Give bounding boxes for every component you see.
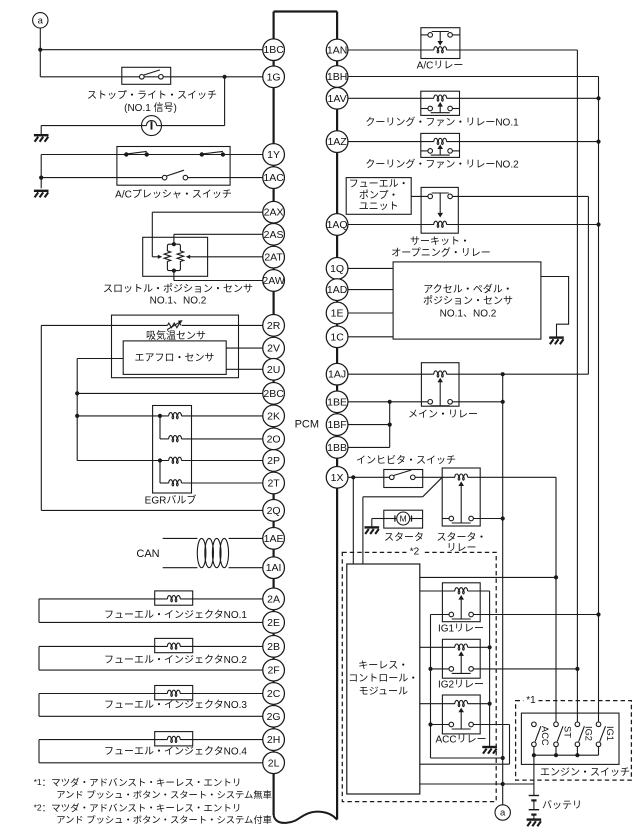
engine switch contact IG1 — [596, 722, 601, 727]
main relay K4 — [421, 363, 459, 407]
junction dot on 1G line — [223, 75, 227, 79]
svg-text:2U: 2U — [267, 364, 280, 376]
svg-text:*2：マツダ・アドバンスト・キーレス・エントリ: *2：マツダ・アドバンスト・キーレス・エントリ — [34, 802, 242, 814]
B+ junction dot on 1AJ — [501, 372, 505, 376]
svg-text:ポジション・センサ: ポジション・センサ — [423, 295, 513, 307]
junction dot EGR node 2 — [158, 458, 162, 462]
svg-text:2AS: 2AS — [264, 229, 284, 241]
PCM pin 2P — [263, 450, 285, 472]
wire 1BH — [348, 76, 599, 78]
ST feed vertical — [555, 477, 557, 722]
keyless branch from 1X — [352, 477, 354, 564]
svg-text:IG1: IG1 — [605, 726, 615, 741]
PCM pin 2AT — [263, 246, 285, 268]
PCM pin 1BH — [326, 66, 348, 88]
engine switch contact ACC — [532, 722, 537, 727]
pressure switch contact 3 (open) — [162, 175, 167, 180]
PCM pin 1Y — [263, 144, 285, 166]
svg-text:フューエル・インジェクタNO.4: フューエル・インジェクタNO.4 — [104, 745, 247, 757]
svg-text:M: M — [400, 513, 407, 523]
svg-text:IG2リレー: IG2リレー — [438, 680, 484, 691]
svg-text:*1：マツダ・アドバンスト・キーレス・エントリ: *1：マツダ・アドバンスト・キーレス・エントリ — [34, 777, 242, 789]
PCM pin 1BE — [326, 391, 348, 413]
EGR valve box — [153, 406, 192, 494]
PCM pin 2V — [263, 337, 285, 359]
svg-text:*2: *2 — [410, 546, 420, 557]
svg-text:オープニング・リレー: オープニング・リレー — [391, 246, 490, 259]
fuel injector NO.2 coil — [155, 638, 193, 652]
wire 2U — [226, 368, 263, 370]
svg-text:2Q: 2Q — [267, 505, 281, 517]
svg-text:CAN: CAN — [136, 548, 159, 560]
PCM pin 2Q — [263, 500, 285, 522]
svg-text:2G: 2G — [267, 711, 281, 723]
svg-text:フューエル・: フューエル・ — [349, 179, 409, 190]
pressure switch contact 2 (closed) — [200, 152, 204, 156]
B+ vertical — [502, 374, 504, 805]
svg-text:1BH: 1BH — [327, 71, 347, 83]
keyless control module box — [347, 564, 420, 794]
circuit opening relay K3 — [421, 187, 458, 233]
wire 2K with EGR coil L1 — [75, 414, 79, 418]
PCM pin 1AD — [326, 279, 348, 301]
wire airflow sensor common — [77, 358, 123, 360]
PCM pin 1E — [326, 302, 348, 324]
wire 2AT to wiper 2 — [190, 256, 263, 258]
wire 1AN to A/C relay coil — [348, 49, 434, 51]
PCM pin 1AJ — [326, 363, 348, 385]
label *2 — [407, 546, 423, 558]
svg-text:アンド プッシュ・ボタン・スタート・システム付車: アンド プッシュ・ボタン・スタート・システム付車 — [56, 814, 272, 825]
PCM pin 1AZ — [326, 131, 348, 153]
svg-text:2B: 2B — [267, 641, 280, 653]
fuel injector NO.1 return wire — [38, 599, 40, 623]
junction dot EGR node 1 — [158, 414, 162, 418]
svg-text:クーリング・ファン・リレーNO.2: クーリング・ファン・リレーNO.2 — [365, 157, 519, 170]
ground for starter — [365, 526, 380, 528]
svg-text:2T: 2T — [267, 477, 280, 489]
svg-text:A/Cプレッシャ・スイッチ: A/Cプレッシャ・スイッチ — [115, 188, 232, 200]
PCM pin 2C — [263, 683, 285, 705]
svg-text:2C: 2C — [267, 688, 281, 700]
svg-text:A/Cリレー: A/Cリレー — [417, 60, 464, 71]
PCM pin 1BF — [326, 414, 348, 436]
CAN twisted pair — [163, 537, 198, 539]
wire 2R left route down to 2Q — [40, 325, 42, 510]
PCM pin 2R — [263, 315, 285, 337]
fuel injector NO.1 coil — [155, 591, 193, 605]
fuel pump unit box — [346, 178, 411, 215]
svg-text:IG2: IG2 — [584, 726, 594, 741]
svg-text:1BC: 1BC — [263, 44, 284, 56]
PCM pin 2F — [263, 659, 285, 681]
PCM pin 2L — [263, 752, 285, 774]
node a (top page connector) — [33, 13, 48, 28]
wire 1X — [348, 476, 390, 478]
svg-text:2F: 2F — [267, 665, 279, 677]
svg-text:2P: 2P — [267, 455, 280, 467]
PCM pin 1AI — [263, 557, 285, 579]
svg-text:1Y: 1Y — [267, 149, 280, 161]
svg-text:PCM: PCM — [295, 418, 319, 430]
PCM pin 1BC — [263, 39, 285, 61]
fuel injector NO.4 return wire — [38, 740, 40, 763]
node a (bottom page connector) — [495, 805, 510, 820]
svg-text:アクセル・ペダル・: アクセル・ペダル・ — [423, 282, 513, 295]
engine switch common bus — [534, 754, 599, 756]
wire 1C — [348, 336, 393, 338]
svg-text:ポンプ・: ポンプ・ — [359, 189, 399, 201]
A/C relay U1 — [421, 28, 460, 59]
wire keyless to ST net — [420, 576, 556, 578]
svg-text:吸気温センサ: 吸気温センサ — [146, 329, 206, 342]
svg-text:コントロール・: コントロール・ — [348, 673, 418, 684]
svg-text:フューエル・インジェクタNO.1: フューエル・インジェクタNO.1 — [104, 609, 247, 621]
label *1 — [524, 694, 539, 706]
resistor R1 throttle sensor no.1 — [164, 244, 174, 270]
airflow sensor inner box — [123, 341, 226, 375]
wire 1AC — [41, 177, 162, 179]
wire inhibitor to starter relay coil — [415, 476, 455, 478]
PCM pin 1G — [263, 66, 285, 88]
svg-text:1AC: 1AC — [263, 172, 284, 184]
engine switch box — [521, 713, 619, 764]
ground for relay coils — [482, 746, 497, 748]
svg-text:a: a — [500, 808, 506, 819]
svg-text:2BC: 2BC — [263, 388, 284, 400]
wire 1Q — [348, 267, 393, 269]
svg-text:ST: ST — [562, 726, 572, 738]
fuel injector NO.3 coil — [155, 686, 193, 700]
svg-text:スタータ: スタータ — [384, 532, 424, 544]
svg-text:1E: 1E — [331, 307, 344, 319]
PCM pin 2BC — [263, 383, 285, 405]
fuel injector NO.4 coil — [155, 732, 193, 746]
svg-text:1AE: 1AE — [264, 533, 284, 545]
IG2 relay K7 — [442, 639, 480, 678]
PCM pin 2O — [263, 428, 285, 450]
cooling fan relay no.2 K2 — [421, 133, 460, 157]
PCM module box — [274, 10, 338, 12]
svg-text:フューエル・インジェクタNO.2: フューエル・インジェクタNO.2 — [104, 654, 247, 666]
cooling fan relay no.1 K1 — [421, 91, 460, 115]
starter relay K5 — [442, 468, 480, 526]
ground for stop lamp — [34, 134, 49, 136]
svg-text:2V: 2V — [267, 343, 280, 355]
PCM pin 1X — [326, 466, 348, 488]
svg-text:1AV: 1AV — [328, 93, 347, 105]
PCM pin 2AW — [263, 270, 285, 292]
wire 2BC — [75, 391, 79, 395]
svg-text:1X: 1X — [331, 472, 344, 484]
wire 1AD — [348, 289, 393, 291]
PCM pin 2G — [263, 705, 285, 727]
svg-text:EGRバルブ: EGRバルブ — [145, 493, 197, 506]
PCM pin 1AN — [326, 39, 348, 61]
throttle position sensor box — [143, 237, 208, 276]
ACC relay output loop to keyless — [509, 725, 511, 765]
wire bus to battery — [533, 755, 535, 795]
svg-text:フューエル・インジェクタNO.3: フューエル・インジェクタNO.3 — [104, 699, 247, 711]
svg-text:キーレス・: キーレス・ — [358, 660, 408, 671]
svg-text:2R: 2R — [267, 320, 281, 332]
wire from a down — [39, 28, 41, 77]
keyless battery feed wire — [420, 783, 534, 785]
wire 1Y — [41, 154, 263, 156]
wire 2AW — [173, 271, 175, 281]
PCM pin 2B — [263, 636, 285, 658]
starter motor M1 — [384, 510, 423, 528]
resistor R2 throttle sensor no.2 — [174, 244, 184, 270]
EGR coil L4 on 2T — [159, 461, 161, 484]
PCM bottom wavy break line — [274, 812, 338, 823]
PCM pin 2K — [263, 405, 285, 427]
wire 1AQ through relay coil — [348, 224, 434, 226]
svg-text:インヒビタ・スイッチ: インヒビタ・スイッチ — [356, 454, 456, 466]
wire 1AJ through main relay coil — [348, 373, 434, 375]
svg-text:1Q: 1Q — [330, 263, 344, 275]
svg-text:ACC: ACC — [540, 726, 550, 746]
PCM pin 2U — [263, 358, 285, 380]
sensor ground wire — [541, 277, 569, 338]
wire branch to stop lamp — [224, 77, 226, 126]
ACC relay K8 — [442, 695, 480, 734]
wire 2AS to top node — [174, 233, 263, 235]
PCM pin 2T — [263, 472, 285, 494]
PCM pin 1Q — [326, 258, 348, 280]
svg-text:サーキット・: サーキット・ — [410, 235, 470, 247]
fuel injector NO.2 return wire — [38, 646, 40, 670]
PCM pin 2H — [263, 729, 285, 751]
junction dot bottom node — [172, 269, 176, 273]
dashed box *1 engine switch system — [516, 701, 632, 781]
svg-text:a: a — [38, 16, 44, 27]
IG1 feed vertical — [598, 77, 600, 723]
PCM pin 1AC — [263, 167, 285, 189]
svg-text:スロットル・ポジション・センサ: スロットル・ポジション・センサ — [103, 283, 253, 295]
svg-text:NO.1、NO.2: NO.1、NO.2 — [440, 308, 497, 319]
svg-text:1AD: 1AD — [327, 284, 348, 296]
svg-text:2E: 2E — [267, 617, 280, 629]
engine switch contact IG2 — [575, 722, 580, 727]
wire 2V — [226, 347, 263, 349]
svg-text:IG1リレー: IG1リレー — [438, 623, 484, 634]
starter ground wire — [372, 518, 384, 520]
svg-text:エンジン・スイッチ: エンジン・スイッチ — [540, 767, 630, 779]
junction dot a/1BC — [38, 48, 42, 52]
svg-text:1AN: 1AN — [327, 44, 347, 56]
svg-text:メイン・リレー: メイン・リレー — [408, 409, 478, 420]
keyless branch diagonal — [423, 477, 443, 497]
inhibitor switch SW2 — [384, 470, 423, 488]
ground for battery — [527, 818, 542, 820]
svg-text:1BB: 1BB — [327, 442, 347, 454]
svg-text:2H: 2H — [267, 734, 280, 746]
accelerator pedal position sensor box — [393, 262, 541, 339]
PCM pin 1AE — [263, 528, 285, 550]
wire 1Y/1AC left vertical to ground — [40, 155, 42, 189]
PCM pin 2AS — [263, 223, 285, 245]
ground for accel sensor — [549, 336, 564, 338]
PCM pin 2E — [263, 612, 285, 634]
relay feed vertical — [430, 615, 432, 759]
airflow sensor assembly box — [112, 315, 239, 378]
svg-text:クーリング・ファン・リレーNO.1: クーリング・ファン・リレーNO.1 — [365, 115, 519, 128]
svg-text:スタータ・: スタータ・ — [437, 532, 487, 544]
junction dot 1AC — [39, 176, 43, 180]
ground for A/C pressure switch — [34, 190, 49, 192]
wire 2AX to wiper 1 — [152, 211, 262, 213]
A/C pressure switch box — [117, 147, 230, 186]
PCM pin 1AV — [326, 87, 348, 109]
svg-text:*1: *1 — [526, 695, 536, 706]
wire 1G — [40, 76, 262, 78]
svg-text:1AJ: 1AJ — [328, 369, 346, 381]
fuel injector NO.3 return wire — [38, 694, 40, 717]
PCM pin 1C — [326, 326, 348, 348]
svg-text:1AZ: 1AZ — [327, 136, 347, 148]
battery B1 — [529, 795, 539, 797]
svg-text:1BF: 1BF — [327, 419, 346, 431]
wire 1E — [348, 312, 393, 314]
svg-text:モジュール: モジュール — [359, 686, 408, 697]
svg-text:バッテリ: バッテリ — [542, 800, 582, 812]
IG1 relay K6 — [442, 583, 480, 622]
PCM pin 1AQ — [326, 214, 348, 236]
svg-text:ACCリレー: ACCリレー — [435, 734, 486, 745]
svg-text:エアフロ・センサ: エアフロ・センサ — [135, 352, 215, 364]
engine switch contact ST — [554, 722, 559, 727]
svg-text:NO.1、NO.2: NO.1、NO.2 — [150, 296, 207, 307]
svg-text:アンド プッシュ・ボタン・スタート・システム無車: アンド プッシュ・ボタン・スタート・システム無車 — [56, 789, 272, 800]
svg-text:1G: 1G — [267, 71, 281, 83]
stop light bulb lamp — [142, 116, 162, 136]
svg-text:1AQ: 1AQ — [327, 219, 348, 231]
wire 1BE through main relay contacts — [348, 401, 428, 403]
svg-text:(NO.1 信号): (NO.1 信号) — [124, 102, 177, 114]
svg-text:2A: 2A — [267, 593, 280, 605]
svg-text:ユニット: ユニット — [359, 202, 399, 213]
wire lamp to ground — [41, 125, 141, 127]
svg-text:ストップ・ライト・スイッチ: ストップ・ライト・スイッチ — [87, 89, 217, 101]
svg-text:2L: 2L — [268, 757, 280, 769]
svg-text:2K: 2K — [267, 410, 280, 422]
PCM pin 2AX — [263, 201, 285, 223]
EGR coil L2 on 2O — [159, 416, 161, 439]
wire 1BF 1BB tie — [389, 402, 391, 448]
junction dot top node — [172, 242, 176, 246]
svg-text:2AW: 2AW — [262, 275, 284, 287]
dashed box *2 keyless system — [342, 552, 496, 801]
wire 1BC — [40, 49, 262, 51]
svg-text:2AT: 2AT — [264, 252, 283, 264]
IG2 feed vertical — [576, 50, 578, 722]
PCM pin 2A — [263, 588, 285, 610]
pressure switch contact 1 (closed) — [124, 152, 128, 156]
svg-text:1BE: 1BE — [327, 396, 347, 408]
stop light switch SW1 — [122, 67, 171, 84]
intake air temp sensor thermistor on 2R — [41, 324, 167, 326]
wire 2P with EGR coil L3 — [77, 460, 169, 462]
PCM pin 1BB — [326, 437, 348, 459]
B+ branch from relay contact — [587, 196, 589, 374]
svg-text:1AI: 1AI — [266, 562, 282, 574]
svg-text:2O: 2O — [267, 433, 281, 445]
svg-text:2AX: 2AX — [264, 207, 284, 219]
svg-text:1C: 1C — [330, 331, 344, 343]
